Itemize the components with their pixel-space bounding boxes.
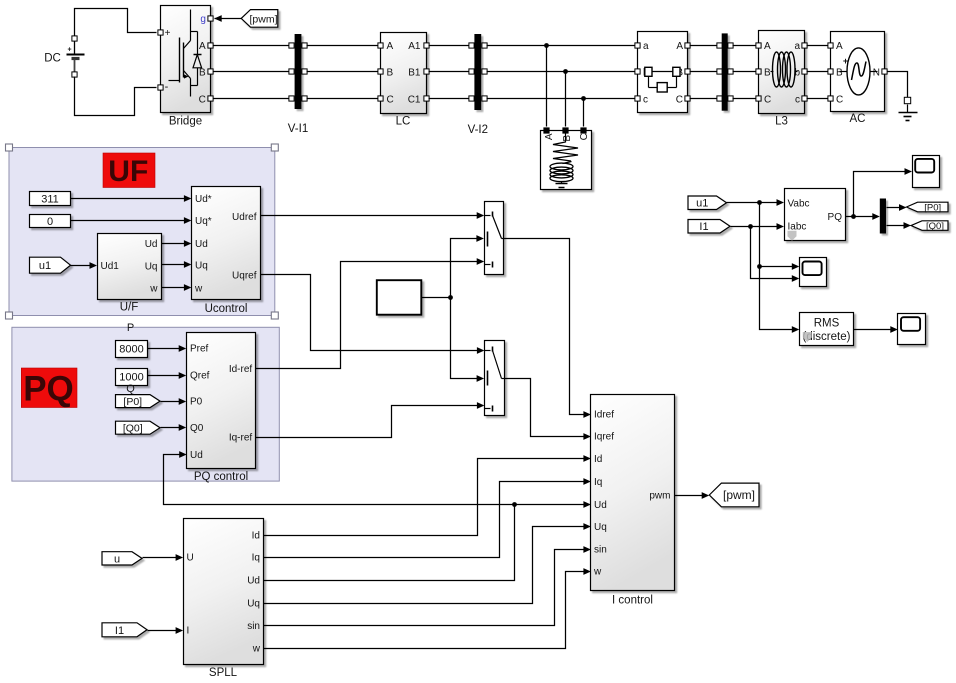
svg-text:Iq: Iq — [594, 477, 602, 488]
wire 1000 to Qref — [148, 372, 187, 379]
svg-text:RMS: RMS — [814, 317, 840, 329]
svg-text:B: B — [562, 135, 573, 142]
ports bar3 — [717, 43, 733, 101]
svg-text:Pref: Pref — [190, 344, 209, 355]
svg-text:Ud: Ud — [195, 239, 208, 250]
svg-text:c: c — [795, 94, 800, 105]
bridge converter Bridge — [158, 6, 213, 128]
wire V-I1 A to LC — [307, 45, 378, 47]
svg-text:AC: AC — [850, 113, 866, 125]
svg-text:PQ: PQ — [23, 370, 74, 409]
wire LC C1 to V-I2 — [429, 98, 470, 100]
svg-text:C: C — [387, 94, 394, 105]
svg-text:[pwm]: [pwm] — [723, 488, 755, 502]
wire tap C to load — [583, 99, 585, 127]
svg-text:I control: I control — [612, 594, 653, 606]
svg-text:Ud: Ud — [145, 239, 158, 250]
svg-text:Idref: Idref — [594, 410, 614, 421]
svg-text:[Q0]: [Q0] — [123, 422, 143, 434]
svg-text:Uq: Uq — [145, 262, 158, 273]
svg-text:311: 311 — [41, 194, 59, 206]
wire bar3 B to L3 — [733, 71, 757, 73]
wire tap B to load — [565, 72, 567, 127]
wire V-I2 C to breaker c — [487, 96, 636, 101]
wire demux to [Q0] — [887, 222, 912, 229]
wire Iq-ref to switch2 in3 — [256, 402, 485, 437]
subsystem Ucontrol — [192, 187, 261, 315]
from tag u1 left — [30, 257, 71, 273]
wire breaker B to bar3 — [690, 71, 718, 73]
wire breaker A to bar3 — [690, 45, 718, 47]
svg-text:C: C — [764, 94, 771, 105]
inductor block L3 — [756, 31, 807, 128]
wire SPLL Uq to I control — [264, 523, 591, 603]
svg-text:Uq*: Uq* — [195, 216, 212, 227]
wire [pwm] to Bridge g — [214, 15, 241, 22]
wire DC+ to Bridge + — [75, 9, 157, 36]
ports V-I1 — [289, 43, 307, 101]
svg-text:A: A — [764, 41, 771, 52]
wire Ud node to PQ control Ud — [164, 451, 515, 504]
wire L3 b to AC — [807, 71, 829, 73]
wire pwm out — [675, 492, 710, 499]
svg-text:Iq-ref: Iq-ref — [229, 433, 253, 444]
wire junction to switch2 control — [451, 298, 485, 382]
svg-text:+: + — [67, 47, 71, 54]
svg-text:A: A — [199, 41, 206, 52]
svg-text:[P0]: [P0] — [123, 396, 142, 408]
svg-text:w: w — [252, 644, 261, 655]
switch block switch1 — [485, 202, 504, 275]
wire 311 to Ud* — [71, 195, 192, 202]
svg-text:C: C — [579, 133, 590, 140]
scope block scope1 — [913, 156, 940, 188]
wire DC- to Bridge - — [75, 77, 157, 116]
svg-text:-: - — [165, 81, 169, 93]
wire PQ out to scope1 — [854, 168, 913, 216]
svg-text:u1: u1 — [696, 198, 708, 210]
DC voltage source DC — [44, 36, 84, 77]
label PQ red — [21, 368, 77, 409]
wire Uqref to switch2 in1 — [261, 275, 485, 354]
svg-text:Qref: Qref — [190, 371, 210, 382]
wire PQ out to demux — [846, 213, 880, 220]
svg-text:A: A — [836, 41, 843, 52]
svg-text:1000: 1000 — [119, 372, 143, 384]
svg-text:DC: DC — [44, 53, 61, 65]
svg-text:B: B — [836, 68, 843, 79]
svg-text:L3: L3 — [775, 116, 788, 128]
power measurement block — [785, 189, 846, 241]
from tag u — [102, 552, 142, 566]
measurement bar V-I2 — [468, 34, 488, 136]
wire junction to switch1 control — [451, 235, 484, 297]
demux — [880, 199, 886, 234]
svg-text:c: c — [643, 94, 648, 105]
svg-text:Ud*: Ud* — [195, 194, 212, 205]
wire [P0] to P0 — [161, 398, 187, 405]
svg-text:B: B — [199, 68, 206, 79]
svg-text:C: C — [836, 94, 843, 105]
wire u to SPLL U — [143, 554, 184, 561]
wire u1 tap to RMS — [760, 267, 800, 333]
wire u1 to Ud1 — [71, 262, 98, 269]
svg-text:u1: u1 — [39, 260, 51, 272]
svg-text:Uq: Uq — [594, 522, 607, 533]
svg-text:[Q0]: [Q0] — [926, 221, 944, 232]
wire AC N to ground — [888, 72, 908, 98]
wire empty block to switches — [422, 295, 453, 300]
wire Bridge C to V-I1 — [214, 98, 290, 100]
wire demux to [P0] — [887, 204, 907, 211]
wire L3 c to AC — [807, 98, 829, 100]
svg-text:Udref: Udref — [232, 212, 257, 223]
from tag I1 — [102, 623, 147, 637]
from tag u1 right — [688, 196, 727, 210]
svg-text:a: a — [643, 41, 649, 52]
wire RMS to scope3 — [854, 326, 898, 333]
wire Id-ref to switch1 in3 — [256, 258, 485, 368]
svg-text:C: C — [676, 94, 683, 105]
ground — [899, 97, 918, 120]
ports V-I2 — [469, 43, 487, 101]
subsystem SPLL — [184, 519, 264, 679]
svg-text:Iqref: Iqref — [594, 432, 614, 443]
svg-text:g: g — [200, 14, 206, 25]
svg-text:C1: C1 — [408, 94, 421, 105]
wire V-I1 B to LC — [307, 71, 378, 73]
svg-text:A: A — [387, 41, 394, 52]
wire U/F Ud to Ucontrol Ud — [162, 240, 192, 247]
from tag [pwm] top — [241, 10, 278, 28]
svg-text:8000: 8000 — [119, 344, 143, 356]
wire SPLL Id to I control — [264, 455, 591, 535]
svg-text:Ud1: Ud1 — [101, 261, 120, 272]
svg-text:Iq: Iq — [252, 553, 260, 564]
wire Bridge A to V-I1 — [214, 45, 290, 47]
scope block scope3 — [898, 314, 926, 345]
svg-text:Id: Id — [252, 531, 260, 542]
constant 0 — [30, 215, 71, 228]
svg-text:Q: Q — [126, 383, 135, 395]
wire LC A1 to V-I2 — [429, 45, 470, 47]
svg-text:Uq: Uq — [195, 260, 208, 271]
svg-text:UF: UF — [108, 155, 148, 188]
wire bar3 C to L3 — [733, 98, 757, 100]
svg-text:C: C — [199, 94, 206, 105]
from tag [P0] — [116, 395, 161, 408]
subsystem I control — [591, 395, 675, 607]
svg-text:w: w — [149, 283, 158, 294]
wire V-I2 B to breaker b — [487, 69, 636, 74]
RMS block — [800, 313, 854, 346]
svg-text:Uq: Uq — [247, 599, 260, 610]
area PQ background — [12, 327, 279, 481]
svg-text:w: w — [194, 283, 203, 294]
three-phase breaker — [635, 32, 690, 113]
wire [Q0] to Q0 — [161, 424, 187, 431]
svg-text:a: a — [794, 41, 800, 52]
measurement bar V-I1 — [288, 34, 308, 135]
svg-text:N: N — [873, 68, 880, 79]
wire SPLL sin to I control — [264, 546, 591, 625]
goto tag [Q0] — [911, 221, 948, 232]
wire SPLL w to I control — [264, 568, 591, 648]
wire SPLL Ud to I control — [264, 501, 591, 580]
area UF background — [6, 144, 279, 319]
svg-text:V-I1: V-I1 — [288, 123, 308, 135]
wire switch1 to Idref — [504, 239, 591, 418]
goto tag [P0] — [907, 202, 949, 213]
wire V-I1 C to LC — [307, 98, 378, 100]
wire L3 a to AC — [807, 45, 829, 47]
wire V-I2 A to breaker a — [487, 43, 636, 48]
svg-text:I1: I1 — [115, 625, 124, 637]
svg-text:A1: A1 — [408, 41, 421, 52]
svg-text:Id: Id — [594, 454, 602, 465]
svg-text:+: + — [843, 56, 848, 66]
svg-text:A: A — [676, 41, 683, 52]
svg-text:P: P — [127, 322, 134, 334]
svg-text:Ud: Ud — [594, 500, 607, 511]
svg-text:Uqref: Uqref — [232, 270, 257, 281]
svg-text:pwm: pwm — [649, 491, 670, 502]
svg-text:Vabc: Vabc — [788, 199, 810, 210]
svg-text:U/F: U/F — [120, 302, 139, 314]
wire u1 to Vabc — [727, 199, 785, 206]
wire 0 to Uq* — [71, 217, 192, 224]
svg-text:I1: I1 — [699, 221, 708, 233]
svg-text:V-I2: V-I2 — [468, 124, 488, 136]
svg-text:sin: sin — [247, 621, 260, 632]
svg-text:Ud: Ud — [247, 576, 260, 587]
wire U/F w to Ucontrol w — [162, 284, 192, 291]
from tag I1 right — [688, 220, 730, 234]
wire bar3 A to L3 — [733, 45, 757, 47]
wire breaker C to bar3 — [690, 98, 718, 100]
wire u1 tap down — [757, 203, 799, 270]
svg-text:Id-ref: Id-ref — [229, 364, 253, 375]
svg-text:u: u — [114, 553, 120, 565]
constant 8000 — [116, 341, 148, 358]
AC source block AC — [828, 32, 887, 126]
svg-text:PQ: PQ — [828, 212, 843, 223]
wire tap A to load — [546, 46, 548, 127]
svg-text:LC: LC — [396, 115, 411, 127]
svg-text:B: B — [387, 68, 394, 79]
svg-text:sin: sin — [594, 545, 607, 556]
wire Bridge B to V-I1 — [214, 71, 290, 73]
svg-text:I: I — [187, 626, 190, 637]
scope block scope2 — [800, 258, 827, 287]
svg-text:0: 0 — [47, 216, 53, 228]
subsystem U/F — [98, 234, 162, 314]
three-phase RL load — [541, 127, 592, 189]
from tag [Q0] — [116, 421, 161, 434]
goto tag [pwm] — [709, 483, 759, 507]
svg-text:Ucontrol: Ucontrol — [205, 303, 248, 315]
svg-text:PQ control: PQ control — [194, 471, 248, 483]
measurement bar 3 — [722, 33, 728, 110]
wire LC B1 to V-I2 — [429, 71, 470, 73]
switch block switch2 — [485, 341, 505, 416]
wire SPLL Iq to I control — [264, 478, 591, 557]
svg-text:Ud: Ud — [190, 450, 203, 461]
constant 311 — [30, 192, 71, 206]
filter block LC — [378, 33, 429, 128]
wire I1 to SPLL I — [148, 627, 184, 634]
svg-text:[P0]: [P0] — [924, 202, 941, 213]
svg-text:SPLL: SPLL — [209, 667, 238, 679]
svg-text:[pwm]: [pwm] — [249, 13, 277, 25]
constant block empty — [377, 280, 422, 315]
svg-text:A: A — [544, 133, 555, 140]
wire Udref to switch1 in1 — [261, 212, 485, 219]
wire I1 tap to scope2 — [751, 227, 800, 282]
wire I1 to Iabc — [731, 223, 785, 230]
svg-text:Bridge: Bridge — [169, 115, 202, 127]
svg-text:U: U — [187, 553, 194, 564]
wire U/F Uq to Ucontrol Uq — [162, 261, 192, 268]
svg-text:B: B — [764, 68, 771, 79]
svg-text:P0: P0 — [190, 397, 203, 408]
subsystem PQ control — [187, 333, 256, 483]
label UF red — [103, 153, 155, 188]
svg-text:+: + — [165, 28, 171, 39]
svg-text:w: w — [593, 567, 602, 578]
svg-text:Q0: Q0 — [190, 423, 204, 434]
wire switch2 to Iqref — [505, 379, 591, 440]
constant 1000 — [116, 369, 148, 386]
wire 8000 to Pref — [148, 345, 187, 352]
svg-text:B1: B1 — [408, 68, 421, 79]
